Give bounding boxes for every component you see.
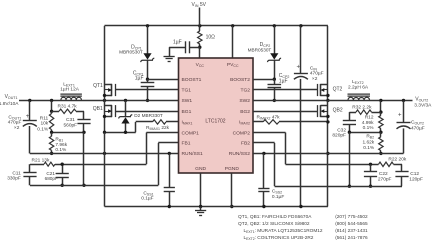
wire +5V drop to QT2 (327, 26, 329, 101)
svg-text:(814) 237-1431: (814) 237-1431 (335, 228, 368, 234)
wire divider tap down (51, 100, 53, 111)
svg-text:QT1: QT1 (93, 83, 103, 89)
transistor QB1 (93, 100, 116, 132)
svg-text:SW2: SW2 (239, 98, 250, 104)
node SW2 junction (326, 99, 329, 102)
svg-text:RB1: RB1 (55, 137, 63, 143)
wire FB2 (253, 143, 402, 187)
svg-text:PVCC: PVCC (227, 62, 239, 68)
wire QB1 source / PGND segment (105, 122, 136, 133)
bottom parts list text (238, 214, 368, 241)
wire SW2 (253, 100, 328, 102)
op-amp U1 LTC1702 IC body (179, 58, 254, 173)
svg-text:VOUT2: VOUT2 (415, 96, 428, 102)
ground symbol near VCC cap (164, 57, 175, 62)
wire FB1 (30, 143, 179, 186)
node D2 cathode tap (124, 99, 127, 102)
resistor R21 13k (30, 157, 62, 166)
wire VCC (199, 47, 201, 58)
node CCP1-SW1 junction (146, 99, 149, 102)
capacitor CCP2 1uF (268, 73, 290, 100)
svg-text:QB2: QB2 (333, 108, 343, 114)
svg-text:COUT2: COUT2 (411, 120, 424, 126)
node DCP2 junction (273, 24, 276, 27)
node divider tap (50, 99, 53, 102)
svg-text:C11: C11 (12, 170, 21, 176)
svg-text:+: + (296, 65, 300, 71)
svg-text:CSS2: CSS2 (272, 189, 282, 195)
node COUT2 tap (402, 99, 405, 102)
node QB2 gnd junction (326, 152, 329, 155)
svg-text:470µF: 470µF (8, 120, 22, 126)
svg-text:10k: 10k (40, 120, 48, 126)
svg-text:COMP2: COMP2 (233, 130, 251, 136)
svg-text:1.8V/10A: 1.8V/10A (0, 101, 19, 107)
wire TG2 (253, 89, 317, 91)
svg-text:C12: C12 (410, 171, 419, 177)
svg-text:RB2: RB2 (366, 134, 374, 140)
node GND rail junction (199, 205, 202, 208)
svg-text:270pF: 270pF (378, 176, 392, 182)
resistor R11 10k 0.1% (37, 111, 54, 132)
wire VOUT1 / SW1 main line (19, 100, 179, 102)
node R12 tap (379, 99, 382, 102)
capacitor CSS1 0.1uF (141, 153, 175, 206)
svg-text:TG1: TG1 (182, 88, 192, 94)
wire +5V top rail (105, 25, 328, 27)
svg-text:QT1, QB1: FAIRCHILD FDS6670A: QT1, QB1: FAIRCHILD FDS6670A (238, 214, 312, 220)
node CCP2-SW2 junction (273, 99, 276, 102)
svg-text:(800) 544-5565: (800) 544-5565 (335, 221, 368, 227)
svg-text:120pF: 120pF (409, 176, 423, 182)
resistor R12 4.99k 0.1% (362, 112, 383, 132)
wire TG1 (115, 89, 178, 91)
node RB2 bottom junction (379, 152, 382, 155)
node C32 junction (348, 131, 351, 134)
wire VIN input (192, 2, 207, 26)
wire VOUT2 line (328, 100, 413, 102)
capacitor CIN 470uF x2 (294, 26, 324, 207)
svg-text:3.3V/3A: 3.3V/3A (414, 103, 432, 109)
node COUT1 tap (28, 99, 31, 102)
svg-text:680pF: 680pF (45, 176, 58, 181)
capacitor COUT1 470uF x2 (8, 100, 37, 153)
node R21-C21 junction (61, 163, 64, 166)
svg-text:RUN/SS1: RUN/SS1 (182, 151, 203, 157)
wire FB2 segment (349, 132, 381, 134)
svg-text:RUN/SS2: RUN/SS2 (229, 151, 250, 157)
wire BOOST2 (253, 79, 274, 81)
svg-text:LTC1702: LTC1702 (205, 118, 225, 124)
wire R12 drop (380, 100, 382, 112)
node FB divider junction (50, 131, 53, 134)
svg-text:×2: ×2 (312, 76, 318, 82)
svg-text:BOOST1: BOOST1 (182, 77, 202, 83)
svg-text:+: + (26, 113, 30, 120)
svg-text:C31: C31 (66, 117, 75, 123)
svg-text:0.1µF: 0.1µF (272, 194, 284, 200)
svg-text:0.1%: 0.1% (37, 127, 49, 133)
svg-text:+: + (398, 113, 402, 119)
svg-text:GND: GND (195, 166, 206, 172)
svg-text:1µF: 1µF (135, 75, 144, 81)
svg-text:LEXT1: MURATA LQT12535C1ROM12: LEXT1: MURATA LQT12535C1ROM12 (244, 228, 323, 234)
wire C32 to FB2 bottom (349, 132, 351, 186)
svg-text:820pF: 820pF (332, 133, 346, 139)
wire QB1 source ground drop (104, 132, 106, 206)
node C22 bottom junction (369, 185, 372, 188)
node PGND rail junction (230, 205, 233, 208)
svg-text:D2 MBR330T: D2 MBR330T (134, 113, 163, 118)
svg-text:0.1%: 0.1% (363, 125, 375, 131)
node QB1 gnd vertical junction (103, 152, 106, 155)
svg-text:QB1: QB1 (93, 106, 103, 112)
svg-text:470µF: 470µF (310, 71, 324, 77)
svg-text:CIN: CIN (310, 65, 317, 71)
wire BG2 (253, 111, 317, 113)
svg-text:R31 4.7k: R31 4.7k (58, 103, 78, 109)
diode DCP2 MBR0530T (248, 26, 282, 62)
capacitor C32 820pF (332, 121, 356, 139)
svg-text:MBR0530T: MBR0530T (119, 50, 143, 55)
svg-text:C22: C22 (379, 171, 388, 177)
U1 pin labels (182, 62, 251, 172)
svg-text:0.1µF: 0.1µF (141, 196, 153, 202)
node RIMAX2-QB2 junction (326, 120, 329, 123)
diode DCP1 MBR0530T (119, 26, 154, 62)
wire COMP1 (62, 133, 178, 165)
resistor RIMAX2 47k (253, 114, 328, 124)
svg-text:R22 20k: R22 20k (388, 157, 406, 163)
resistor 10Ohm (198, 26, 216, 47)
transistor QB2 (318, 100, 343, 206)
svg-text:IMAX1: IMAX1 (182, 120, 193, 126)
label VOUT2 (414, 96, 432, 108)
wire bottom PGND rail (105, 206, 328, 208)
node VCC filter junction (198, 46, 201, 49)
svg-text:MBR0530T: MBR0530T (248, 47, 272, 52)
node R31 tap (50, 110, 53, 113)
capacitor COUT2 470uF (397, 100, 425, 153)
transistor QT2 (318, 84, 343, 97)
resistor R32 2.2k (349, 104, 381, 120)
label VOUT1 (0, 94, 19, 107)
svg-text:10Ω: 10Ω (206, 34, 216, 40)
node QB1 drain (103, 99, 106, 102)
svg-text:COMP1: COMP1 (182, 130, 200, 136)
capacitor C11 330pF (7, 164, 36, 185)
wire BOOST1 (148, 79, 179, 81)
svg-text:FB2: FB2 (241, 141, 250, 147)
wire GND line left (30, 153, 179, 155)
svg-text:×2: ×2 (14, 125, 20, 131)
svg-text:1µF: 1µF (279, 78, 288, 84)
node CIN junction (299, 24, 302, 27)
node C21 bottom junction (61, 184, 64, 187)
svg-text:RIMAX1 22k: RIMAX1 22k (146, 125, 170, 131)
wire +5V drop to QT1 (104, 26, 106, 101)
svg-text:VOUT1: VOUT1 (5, 94, 18, 100)
node FB2 divider junction (379, 131, 382, 134)
svg-text:LEXT2: LEXT2 (352, 79, 364, 85)
node PVCC junction (231, 24, 234, 27)
svg-text:7.96k: 7.96k (55, 142, 67, 148)
resistor RB1 7.96k 0.1% (49, 132, 67, 153)
svg-text:PGND: PGND (225, 166, 240, 172)
svg-text:330pF: 330pF (7, 176, 21, 182)
node R22-C22 junction (369, 163, 372, 166)
svg-text:RIMAX2 47k: RIMAX2 47k (257, 114, 281, 120)
node CSS1 tap (168, 152, 171, 155)
node RB1 bottom junction (50, 152, 53, 155)
svg-text:LEXT2: COILTRONICS UP2B-2R2: LEXT2: COILTRONICS UP2B-2R2 (244, 235, 314, 241)
svg-text:VCC: VCC (196, 62, 205, 68)
svg-text:470µF: 470µF (411, 125, 425, 131)
wire BG1 (115, 111, 178, 113)
svg-text:QT2: QT2 (333, 87, 343, 93)
inductor LEXT1 1uH 12A (60, 81, 82, 100)
svg-text:(207) 775-4502: (207) 775-4502 (335, 214, 368, 220)
svg-text:0.1%: 0.1% (55, 147, 67, 153)
svg-text:VIN 5V: VIN 5V (192, 2, 207, 8)
capacitor CSS2 0.1uF (258, 153, 284, 206)
diode D2 MBR330T (119, 100, 163, 132)
transistor QT1 (93, 83, 115, 97)
capacitor C21 680pF (45, 164, 69, 185)
wire GND pin (200, 173, 202, 207)
svg-text:1µF: 1µF (173, 40, 182, 46)
svg-text:CSS1: CSS1 (143, 190, 153, 196)
node C31-FB1 bottom junction (82, 184, 85, 187)
node DCP1 junction (146, 24, 149, 27)
capacitor C12 120pF (395, 164, 423, 186)
resistor RIMAX1 22k (136, 120, 179, 132)
inductor LEXT2 2.2uH (348, 79, 371, 100)
node R32 tap (379, 110, 382, 113)
capacitor CCP1 1uF (133, 70, 154, 100)
node C31 junction (82, 131, 85, 134)
wire PGND pin (231, 173, 233, 207)
node CSS1 rail junction (168, 205, 171, 208)
node CSS2 rail junction (262, 205, 265, 208)
wire COMP2 (253, 133, 371, 165)
svg-text:R32 2.2k: R32 2.2k (352, 104, 372, 110)
svg-text:560pF: 560pF (64, 123, 78, 129)
node QB1 source junction (103, 131, 106, 134)
svg-text:SW1: SW1 (182, 98, 193, 104)
wire PVCC (232, 26, 234, 58)
svg-text:R11: R11 (40, 115, 49, 121)
svg-text:C32: C32 (337, 127, 346, 133)
wire GND line right (253, 153, 404, 155)
svg-text:R12: R12 (365, 115, 374, 121)
svg-text:COUT1: COUT1 (8, 114, 21, 120)
svg-text:1.62k: 1.62k (362, 139, 374, 145)
node VIN junction (198, 24, 201, 27)
resistor R31 4.7k (52, 103, 84, 120)
wire FB1 segment (52, 132, 84, 134)
svg-text:BG2: BG2 (240, 109, 250, 115)
svg-text:TG2: TG2 (240, 88, 250, 94)
svg-text:BG1: BG1 (182, 109, 192, 115)
resistor RB2 1.62k 0.1% (362, 132, 383, 153)
svg-text:(561) 241-7876: (561) 241-7876 (335, 235, 368, 241)
ground symbol main (195, 207, 206, 216)
capacitor C22 270pF (364, 164, 392, 186)
wire DCP1 to BOOST1 (147, 60, 149, 79)
capacitor 1uF VCC bypass (169, 40, 200, 57)
node BOOST1 junction (146, 78, 149, 81)
svg-text:IMAX2: IMAX2 (239, 120, 250, 126)
svg-text:BOOST2: BOOST2 (230, 77, 250, 83)
svg-text:4.99k: 4.99k (362, 120, 374, 126)
wire DCP2 to BOOST2 (274, 60, 276, 79)
node C32-FB2 bottom junction (348, 185, 351, 188)
node CIN rail junction (299, 205, 302, 208)
svg-text:R21 13k: R21 13k (32, 157, 50, 163)
svg-text:QT2, QB2: 1/2 SILICONIX Si9802: QT2, QB2: 1/2 SILICONIX Si9802 (238, 221, 310, 227)
node D2 anode junction (124, 131, 127, 134)
node CSS2 tap (262, 152, 265, 155)
resistor R22 20k (371, 157, 407, 167)
svg-text:FB1: FB1 (182, 141, 191, 147)
svg-text:2.2µH 6A: 2.2µH 6A (348, 85, 369, 91)
node BOOST2 junction (273, 78, 276, 81)
svg-text:0.1%: 0.1% (363, 145, 375, 151)
svg-text:1µH 12A: 1µH 12A (60, 86, 80, 92)
wire C31 to FB1 bottom (83, 132, 85, 185)
capacitor C31 560pF (64, 117, 91, 133)
